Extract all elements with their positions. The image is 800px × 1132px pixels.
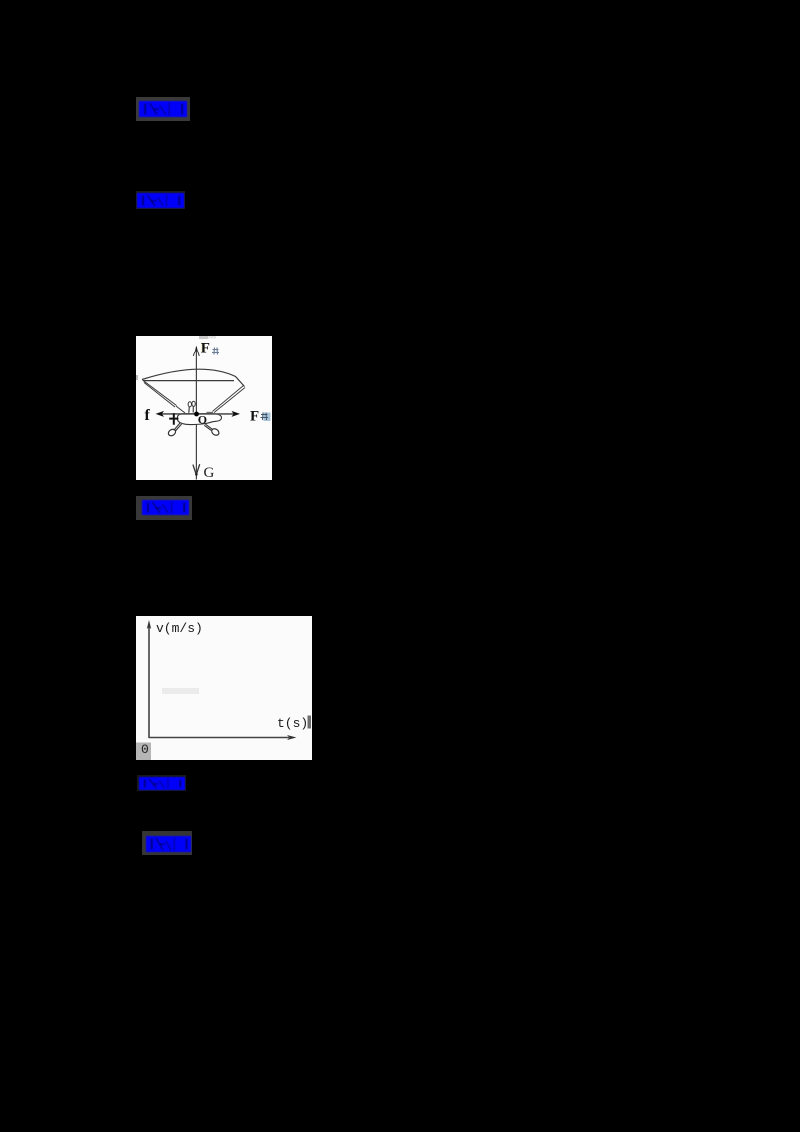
right landing strut: [204, 424, 212, 430]
left landing strut: [174, 423, 182, 431]
svg-text:F: F: [250, 409, 259, 425]
right suspension lines: [207, 386, 246, 413]
label block 2 (blue tag): [136, 191, 185, 209]
left wheel: [167, 428, 177, 437]
harness / trike body outline: [178, 413, 222, 424]
down arrowhead (G) open V: [193, 464, 200, 475]
faint smudge: [162, 688, 199, 694]
label block 1 (blue tag on gray box): [136, 97, 190, 121]
right arrowhead (F_pull): [232, 411, 241, 417]
label block 4 (blue tag): [137, 775, 186, 791]
svg-text:F: F: [201, 341, 210, 357]
horizontal force line: [159, 413, 237, 415]
svg-text:v(m/s): v(m/s): [156, 621, 203, 636]
left suspension lines: [143, 380, 186, 413]
gray mark left edge: [136, 375, 138, 380]
plus mark on harness: [169, 413, 178, 425]
gray bar right of t(s): [308, 716, 312, 729]
right wheel: [210, 427, 220, 436]
white figure background: [136, 336, 272, 480]
canopy arc: [142, 369, 245, 386]
v axis line: [148, 626, 150, 738]
gray smudge top: [199, 336, 208, 339]
svg-text:0: 0: [141, 742, 149, 757]
vertical force axis line: [195, 347, 197, 480]
t axis arrowhead: [287, 735, 297, 740]
pilot figure (two small loops + legs): [188, 402, 191, 407]
v axis arrowhead: [147, 620, 151, 629]
up arrowhead (F_lift): [195, 346, 199, 353]
left arrowhead (f): [156, 411, 165, 417]
label F_lift: [201, 343, 205, 353]
svg-text:f: f: [145, 407, 151, 424]
selection patch behind subscript: [264, 413, 271, 422]
t axis line: [149, 737, 289, 739]
svg-text:t(s): t(s): [277, 716, 308, 731]
center node dot O: [194, 412, 199, 417]
white figure background: [136, 616, 312, 760]
canopy chord line: [143, 380, 234, 382]
label block 3 (blue tag on gray box): [136, 496, 192, 520]
gray corner patch: [136, 743, 151, 761]
svg-text:G: G: [204, 465, 215, 480]
label block 5 (blue tag on gray box): [142, 831, 192, 855]
figure 1: powered paraglider force diagram: [136, 336, 272, 480]
figure 2: v-t graph axes: [136, 616, 312, 760]
